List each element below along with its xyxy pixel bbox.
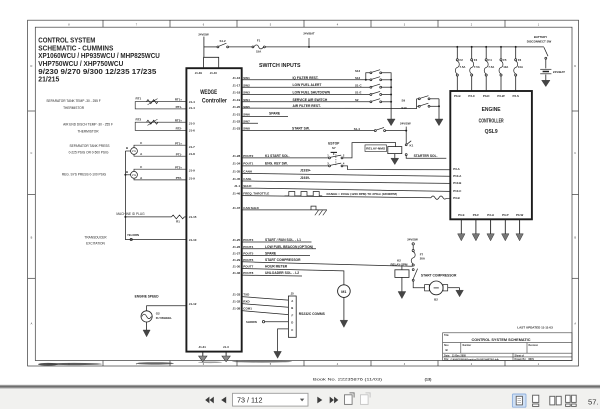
- svg-text:J1-17: J1-17: [233, 83, 241, 87]
- sheet title text: [38, 36, 160, 84]
- svg-text:Number: Number: [463, 345, 472, 347]
- svg-text:SERVICE AIR SWITCH: SERVICE AIR SWITCH: [293, 98, 328, 102]
- svg-text:POUT7: POUT7: [243, 264, 253, 268]
- wire POUT4 LOW FUEL BEACON row: [242, 245, 316, 249]
- svg-text:SWITCH INPUTS: SWITCH INPUTS: [259, 63, 301, 69]
- wire SW1 row: [242, 76, 370, 80]
- wire POUT7 HOUR METER row to hour meter M1: [242, 265, 344, 285]
- svg-text:C: C: [30, 152, 32, 155]
- svg-text:CANH: CANH: [243, 170, 252, 174]
- svg-text:20A: 20A: [420, 257, 426, 261]
- wire FREQ THROTTLE row with pulse waveform: [242, 192, 451, 200]
- svg-text:ENGINE SPEED: ENGINE SPEED: [135, 294, 160, 298]
- svg-text:POUT5: POUT5: [243, 252, 253, 256]
- svg-text:C: C: [574, 152, 576, 155]
- svg-text:7.5A: 7.5A: [460, 65, 466, 69]
- relay K1 coil RELAY-NMS: [365, 145, 402, 154]
- svg-text:C:\ELECDWGS\Graphics\FLOWCHART: C:\ELECDWGS\Graphics\FLOWCHARTS\1.ddb: [451, 358, 500, 361]
- svg-text:P3-H: P3-H: [487, 213, 494, 217]
- svg-text:FLYWHEEL: FLYWHEEL: [156, 316, 172, 320]
- svg-text:J1-22: J1-22: [233, 119, 241, 123]
- svg-text:J1-32: J1-32: [233, 300, 241, 304]
- wire POUT2 K1 START SOL. row: [242, 154, 329, 158]
- label START COMPRESSOR motor circuit: [421, 274, 457, 278]
- pin labels ENGINE CONTROLLER top: [454, 94, 519, 98]
- fuse F7 20A: [411, 250, 426, 267]
- svg-text:J1-1: J1-1: [234, 184, 240, 188]
- svg-text:24V/SW: 24V/SW: [400, 122, 411, 126]
- svg-text:RANGE = 150Hz (1200 RPM) TO 37: RANGE = 150Hz (1200 RPM) TO 375Hz (1800R…: [327, 192, 398, 196]
- wire SW8 row START SW.: [242, 126, 375, 130]
- svg-text:J1-3: J1-3: [223, 345, 229, 349]
- svg-text:AIR FILTER REST.: AIR FILTER REST.: [293, 104, 321, 108]
- node YEL/ORN on excitation wire: [127, 233, 139, 240]
- svg-text:S1-4: S1-4: [354, 127, 360, 131]
- svg-text:S13: S13: [355, 76, 361, 80]
- svg-text:J1-7: J1-7: [189, 145, 195, 149]
- svg-text:P10-B: P10-B: [453, 181, 461, 185]
- svg-text:D: D: [574, 65, 576, 68]
- svg-text:TRANSDUCER: TRANSDUCER: [84, 236, 107, 240]
- svg-text:J1-9: J1-9: [189, 168, 195, 172]
- svg-text:MACHINE ID PLUG: MACHINE ID PLUG: [116, 212, 145, 216]
- svg-text:J1-18: J1-18: [233, 91, 241, 95]
- svg-text:RT2+: RT2+: [175, 118, 182, 122]
- svg-text:P10-C: P10-C: [453, 189, 462, 193]
- svg-text:J1-20: J1-20: [233, 105, 241, 109]
- ground at battery: [542, 75, 550, 87]
- svg-text:PT2+: PT2+: [175, 165, 182, 169]
- ground at ENGINE CONTROLLER bottom pin 1: [458, 219, 465, 241]
- svg-text:J1-8: J1-8: [189, 152, 195, 156]
- svg-text:24V/SW: 24V/SW: [407, 237, 418, 241]
- svg-text:J1-12: J1-12: [189, 302, 197, 306]
- svg-text:SW7: SW7: [243, 119, 250, 123]
- svg-text:COM1: COM1: [243, 307, 252, 311]
- svg-text:P3-W: P3-W: [516, 213, 523, 217]
- svg-text:C: C: [291, 328, 293, 332]
- svg-text:RS232C COMMS: RS232C COMMS: [299, 312, 326, 316]
- signal name labels WEDGE right side: [243, 76, 269, 311]
- title block CONTROL SYSTEM SCHEMATIC: [443, 333, 572, 361]
- svg-text:Book No. 22235876 (11/03): Book No. 22235876 (11/03): [313, 377, 383, 382]
- svg-text:J1-36: J1-36: [233, 271, 241, 275]
- switch S10: [401, 103, 439, 110]
- svg-text:P10-A: P10-A: [453, 174, 462, 178]
- svg-text:ENG. KEY SW.: ENG. KEY SW.: [265, 161, 288, 165]
- svg-text:SW3: SW3: [243, 91, 250, 95]
- wire from ESTOP to relay K1 coil: [343, 143, 396, 158]
- svg-text:LOW FUEL SHUTDOWN: LOW FUEL SHUTDOWN: [293, 91, 331, 95]
- svg-text:ENGINE: ENGINE: [482, 107, 501, 113]
- thermistor RT2: [135, 118, 186, 131]
- svg-text:POUT4: POUT4: [243, 245, 253, 249]
- svg-text:K1: K1: [410, 143, 414, 147]
- svg-text:B: B: [126, 170, 128, 174]
- net label STARTER SOL.: [414, 154, 438, 158]
- svg-text:10A: 10A: [518, 65, 523, 69]
- svg-text:Size: Size: [444, 345, 449, 347]
- ground at K1 coil: [391, 154, 399, 165]
- svg-text:Date:: Date:: [444, 354, 450, 357]
- wire POUT8 UNLOADER SOL row: [242, 271, 302, 276]
- svg-text:UNLOADER SOL. - L2: UNLOADER SOL. - L2: [265, 271, 299, 275]
- pressure transducer PT2: [125, 165, 186, 180]
- svg-text:POUT1: POUT1: [243, 162, 253, 166]
- svg-text:Sheet of: Sheet of: [515, 354, 525, 357]
- wire ESTOP to ENGINE CONTROLLER P3-A: [343, 166, 450, 170]
- svg-text:S13: S13: [355, 69, 361, 73]
- svg-text:F5: F5: [503, 58, 507, 62]
- svg-text:RELAY-SPM: RELAY-SPM: [391, 263, 408, 267]
- svg-text:START / RUN SOL. - L1: START / RUN SOL. - L1: [265, 238, 301, 242]
- svg-text:24V/SW: 24V/SW: [198, 33, 209, 37]
- svg-text:POUT8: POUT8: [243, 271, 253, 275]
- wire switched-24V collector bus with arrow to 24V/SW: [387, 80, 395, 126]
- svg-text:J1-46: J1-46: [233, 192, 241, 196]
- svg-text:J1-30: J1-30: [233, 264, 241, 268]
- wire 24V battery bus: [265, 46, 544, 48]
- svg-text:J1-33: J1-33: [233, 293, 241, 297]
- svg-text:J1-6: J1-6: [189, 129, 195, 133]
- svg-text:POUT3: POUT3: [243, 238, 253, 242]
- svg-text:RT1: RT1: [136, 96, 142, 100]
- svg-text:CANL: CANL: [243, 177, 251, 181]
- relay contact K2: [412, 269, 424, 288]
- svg-text:73 / 112: 73 / 112: [237, 396, 262, 405]
- label separator tank temp thermistor: [46, 99, 100, 110]
- svg-text:SPARE: SPARE: [269, 112, 281, 116]
- svg-text:J1-27: J1-27: [233, 252, 241, 256]
- wire CAN SHLD row with chassis ground: [242, 206, 327, 215]
- svg-text:SPARE: SPARE: [265, 252, 277, 256]
- svg-text:YEL/ORN: YEL/ORN: [127, 233, 139, 237]
- svg-text:START COMPRESSOR: START COMPRESSOR: [421, 274, 457, 278]
- wire SHLD row: [242, 188, 451, 191]
- svg-text:Controller: Controller: [202, 99, 228, 105]
- svg-text:11-Dec-2005: 11-Dec-2005: [452, 354, 466, 357]
- svg-text:HOUR METER: HOUR METER: [265, 265, 288, 269]
- svg-text:J1-45: J1-45: [233, 177, 241, 181]
- svg-text:B: B: [126, 146, 128, 150]
- svg-text:Title: Title: [444, 334, 449, 337]
- fuse F6 10A: [514, 46, 523, 91]
- svg-text:F4: F4: [488, 58, 492, 62]
- svg-text:J1-39: J1-39: [195, 71, 203, 75]
- footer book number text: [313, 377, 432, 382]
- wire J5 pin C to ground: [274, 329, 289, 358]
- svg-text:P3-F: P3-F: [473, 213, 479, 217]
- svg-text:R1: R1: [176, 220, 180, 224]
- svg-text:File:: File:: [444, 358, 449, 361]
- svg-text:J1-29: J1-29: [233, 258, 241, 262]
- wire COM1 row to J5: [242, 311, 289, 315]
- relay contact K1: [405, 141, 446, 158]
- svg-text:57.: 57.: [588, 398, 599, 407]
- svg-text:F1: F1: [257, 39, 261, 43]
- svg-text:S1-E: S1-E: [355, 91, 361, 95]
- svg-text:SW8: SW8: [243, 127, 250, 131]
- svg-text:J1-25: J1-25: [233, 238, 241, 242]
- svg-text:POUT6: POUT6: [243, 258, 253, 262]
- ground at K2 coil: [398, 277, 406, 298]
- fuse F3 7.5A: [470, 46, 480, 91]
- svg-text:A: A: [291, 299, 293, 303]
- net 24V/BAT stub: [303, 31, 315, 48]
- ground at M1: [340, 297, 348, 327]
- svg-text:J1939+: J1939+: [300, 169, 311, 173]
- svg-text:POUT2: POUT2: [243, 154, 253, 158]
- svg-text:M1: M1: [341, 290, 346, 294]
- fuse F2 7.5A: [455, 46, 465, 91]
- PDF viewer toolbar: [0, 385, 600, 386]
- svg-text:15A: 15A: [256, 50, 262, 54]
- ground at ENGINE CONTROLLER bottom pin 3: [487, 219, 494, 241]
- fuse F5 10A: [499, 46, 508, 91]
- wire transducer excitation bus: [124, 151, 186, 240]
- svg-text:7.5A: 7.5A: [488, 65, 494, 69]
- svg-text:FREQ. THROTTLE: FREQ. THROTTLE: [243, 192, 269, 196]
- svg-text:J1-10: J1-10: [189, 238, 197, 242]
- svg-text:J1939-: J1939-: [300, 176, 310, 180]
- svg-text:SEPARATOR TANK TEMP -30 - 255: SEPARATOR TANK TEMP -30 - 255 F: [46, 99, 100, 103]
- svg-text:B: B: [291, 306, 293, 310]
- wire SW5 row AIR FILTER REST.: [242, 99, 417, 109]
- svg-text:BATTERY: BATTERY: [534, 35, 547, 39]
- svg-text:J1-4: J1-4: [189, 106, 195, 110]
- svg-text:J1-38: J1-38: [233, 307, 241, 311]
- wire CANL J1939- row: [242, 176, 451, 183]
- ground at WEDGE pin J1-3: [222, 352, 230, 362]
- svg-text:P3-B: P3-B: [454, 94, 461, 98]
- svg-text:J1-35: J1-35: [233, 170, 241, 174]
- controller U1 WEDGE Controller box: [186, 68, 241, 351]
- svg-text:S7: S7: [332, 146, 336, 150]
- battery disconnect switch S11: [527, 35, 552, 59]
- svg-text:STARTER SOL.: STARTER SOL.: [414, 154, 438, 158]
- svg-text:10A: 10A: [503, 65, 508, 69]
- svg-text:SHLD: SHLD: [243, 184, 252, 188]
- svg-text:24V/BAT: 24V/BAT: [303, 31, 315, 35]
- svg-text:S9: S9: [402, 99, 406, 103]
- svg-text:EXCITATION: EXCITATION: [86, 242, 105, 246]
- svg-text:21/215: 21/215: [38, 75, 60, 84]
- pin labels ENGINE CONTROLLER left: [453, 167, 462, 200]
- svg-text:0-225 PSIG OR 0-500 PSIG: 0-225 PSIG OR 0-500 PSIG: [69, 151, 109, 155]
- svg-text:24V/BAT: 24V/BAT: [553, 70, 565, 74]
- net 24V/SW feed to F7: [407, 237, 418, 249]
- svg-text:Drawn By:: Drawn By:: [515, 358, 527, 361]
- svg-text:7.5A: 7.5A: [474, 65, 480, 69]
- svg-text:P3-P: P3-P: [502, 213, 508, 217]
- hour meter M1: [338, 285, 351, 298]
- svg-text:SW5: SW5: [243, 105, 250, 109]
- svg-text:RT2-: RT2-: [176, 127, 182, 131]
- thermistor RT1: [135, 96, 186, 109]
- ground at ENGINE CONTROLLER bottom pin 4: [502, 219, 509, 241]
- svg-text:J1-5: J1-5: [189, 121, 195, 125]
- svg-text:QSL9: QSL9: [485, 129, 499, 135]
- resistor R1 machine ID: [124, 215, 186, 224]
- svg-text:P3-D: P3-D: [483, 94, 490, 98]
- svg-text:P3-E: P3-E: [458, 213, 464, 217]
- svg-text:J1-19: J1-19: [233, 98, 241, 102]
- svg-text:CAN SHLD: CAN SHLD: [243, 206, 259, 210]
- svg-text:SH/DRN: SH/DRN: [246, 320, 257, 324]
- wire TXD row to J5: [242, 297, 289, 301]
- svg-text:J1-40: J1-40: [210, 71, 218, 75]
- svg-text:P3-W: P3-W: [497, 94, 504, 98]
- net label 24V/SW between arrows: [400, 122, 411, 126]
- heading SWITCH INPUTS: [259, 63, 301, 69]
- controller U2 ENGINE CONTROLLER QSL9 box: [450, 91, 532, 219]
- net SH/DRN stub to J5: [246, 320, 288, 324]
- label machine ID plug: [116, 212, 145, 216]
- label reg sys press: [62, 173, 107, 177]
- switch S13 parallel bypass on SW1 row: [355, 69, 391, 81]
- label separator tank press: [69, 144, 110, 155]
- wire S9/S10 collector with arrow to 24V/SW: [435, 99, 443, 126]
- ground at WEDGE pin J1-31: [199, 352, 207, 362]
- wire RXD row to J5: [242, 304, 289, 308]
- fuse F1 15A: [229, 39, 266, 54]
- svg-text:S1-2: S1-2: [220, 39, 226, 43]
- label engine speed: [135, 294, 160, 298]
- pin labels ENGINE CONTROLLER bottom: [458, 213, 523, 217]
- wire POUT3 START/RUN SOL row: [242, 238, 312, 242]
- svg-text:DISCONNECT SW: DISCONNECT SW: [527, 40, 552, 44]
- ground at ENGINE CONTROLLER bottom pin 2: [472, 219, 479, 241]
- svg-text:J1-26: J1-26: [233, 245, 241, 249]
- svg-text:START COMPRESSOR: START COMPRESSOR: [265, 258, 301, 262]
- svg-text:RT1+: RT1+: [175, 98, 182, 102]
- svg-text:THERMISTOR: THERMISTOR: [63, 106, 85, 110]
- svg-text:SW6: SW6: [243, 113, 250, 117]
- svg-text:S2: S2: [355, 98, 359, 102]
- relay K2 coil RELAY-SPM: [391, 258, 410, 277]
- label air end disch temp thermistor: [63, 123, 113, 134]
- wire SW7 row: [242, 122, 258, 124]
- svg-text:J1-16: J1-16: [233, 76, 241, 80]
- svg-text:J1-21: J1-21: [233, 113, 241, 117]
- wire SW6 row SPARE: [242, 112, 288, 117]
- connector J5 RS232C COMMS: [288, 292, 325, 338]
- bottom pins J1-31 J1-3 of WEDGE controller: [198, 345, 229, 349]
- switch S2 on SW4 row: [355, 98, 392, 103]
- svg-text:Revision: Revision: [529, 345, 539, 347]
- svg-text:SW4: SW4: [243, 98, 250, 102]
- svg-text:PT2-: PT2-: [176, 176, 182, 180]
- wire SW4 row: [242, 98, 370, 102]
- svg-text:RELAY-NMS: RELAY-NMS: [366, 147, 385, 151]
- svg-text:PT1-: PT1-: [176, 152, 182, 156]
- pin labels WEDGE right side: [233, 76, 241, 311]
- switch S9: [402, 96, 439, 103]
- svg-text:S10: S10: [401, 106, 407, 110]
- svg-text:RT2: RT2: [136, 118, 142, 122]
- svg-text:J1-31: J1-31: [198, 345, 206, 349]
- svg-text:D: D: [291, 321, 293, 325]
- svg-text:WEDGE: WEDGE: [200, 90, 217, 96]
- svg-text:LOW FUEL BEACON (OPTION): LOW FUEL BEACON (OPTION): [265, 245, 313, 249]
- svg-text:F: F: [291, 313, 293, 317]
- connector notch J1-39/J1-40 on top of WEDGE controller: [195, 57, 219, 75]
- ground at motor B2: [456, 288, 464, 297]
- svg-text:J1-4: J1-4: [189, 100, 195, 104]
- battery BT1 24V/BAT: [540, 59, 565, 74]
- net 24V/SW feed to WEDGE: [198, 33, 209, 58]
- svg-text:F6: F6: [518, 58, 522, 62]
- wire SW3 row: [242, 91, 370, 95]
- svg-text:LOW FUEL ALERT: LOW FUEL ALERT: [293, 83, 322, 87]
- net 24V/SW stub to relay contact K1: [405, 127, 407, 144]
- svg-text:J1-15: J1-15: [189, 215, 197, 219]
- svg-text:P3-B: P3-B: [453, 196, 460, 200]
- svg-text:F3: F3: [474, 58, 478, 62]
- svg-text:K2: K2: [397, 258, 401, 262]
- svg-text:B2: B2: [434, 297, 438, 301]
- svg-text:F2: F2: [460, 58, 464, 62]
- svg-text:AIR END DISCH TEMP -30 - 255 F: AIR END DISCH TEMP -30 - 255 F: [63, 123, 113, 127]
- svg-text:IQ FILTER REST.: IQ FILTER REST.: [293, 76, 319, 80]
- wire POUT5 SPARE row: [242, 252, 310, 256]
- svg-text:J1-9: J1-9: [189, 177, 195, 181]
- fuse F4 7.5A: [484, 46, 494, 91]
- svg-text:J1-23: J1-23: [233, 127, 241, 131]
- svg-text:TXD: TXD: [243, 293, 250, 297]
- svg-text:J5: J5: [291, 292, 295, 296]
- svg-text:P3-C: P3-C: [468, 94, 475, 98]
- label transducer excitation: [84, 236, 107, 246]
- svg-text:J1-37: J1-37: [233, 206, 241, 210]
- switch S1-4: [354, 127, 406, 132]
- svg-text:S1-C: S1-C: [355, 83, 362, 87]
- svg-text:SW2: SW2: [243, 83, 250, 87]
- ground at G2: [143, 322, 150, 337]
- svg-text:CONTROL SYSTEM SCHEMATIC: CONTROL SYSTEM SCHEMATIC: [472, 338, 531, 342]
- scan smudge marks along bottom border: [38, 361, 292, 366]
- svg-text:J1-34: J1-34: [233, 162, 241, 166]
- svg-text:D: D: [30, 65, 32, 68]
- svg-text:START SW.: START SW.: [292, 126, 310, 130]
- magnetic pickup G2 flywheel: [141, 306, 186, 322]
- svg-text:K1 START SOL.: K1 START SOL.: [265, 154, 290, 158]
- wire POUT6 START COMPRESSOR row to K2 coil: [242, 258, 413, 270]
- svg-text:CONTROLLER: CONTROLLER: [479, 119, 504, 125]
- svg-text:P3-S: P3-S: [512, 94, 518, 98]
- svg-text:RXD: RXD: [243, 300, 250, 304]
- svg-text:RT1-: RT1-: [176, 105, 182, 109]
- switch S13 on SW1 row: [355, 76, 392, 81]
- svg-text:THERMISTOR: THERMISTOR: [77, 130, 99, 134]
- switch S1-C on SW2 row: [355, 83, 392, 88]
- svg-text:J1-28: J1-28: [233, 154, 241, 158]
- emergency stop switch S7 ESTOP: [327, 142, 345, 167]
- pin labels WEDGE left side: [189, 100, 197, 306]
- svg-text:SEPARATOR TANK PRESS: SEPARATOR TANK PRESS: [70, 144, 110, 148]
- svg-text:SW1: SW1: [243, 76, 250, 80]
- wire CANH J1939+ row: [242, 169, 451, 177]
- switch S1-2: [204, 39, 229, 48]
- wire SW2 row: [242, 83, 370, 87]
- svg-text:(13): (13): [425, 378, 432, 382]
- svg-text:LAST UPDATED 11-11-03: LAST UPDATED 11-11-03: [517, 326, 553, 330]
- svg-text:P3-A: P3-A: [453, 167, 460, 171]
- motor B2 start compressor: [425, 281, 460, 301]
- svg-text:REG. SYS PRESS 0-100 PSIG: REG. SYS PRESS 0-100 PSIG: [62, 173, 107, 177]
- ground at ENGINE CONTROLLER bottom pin 5: [516, 219, 523, 241]
- wire POUT1 ENG. KEY SW. row: [242, 161, 329, 166]
